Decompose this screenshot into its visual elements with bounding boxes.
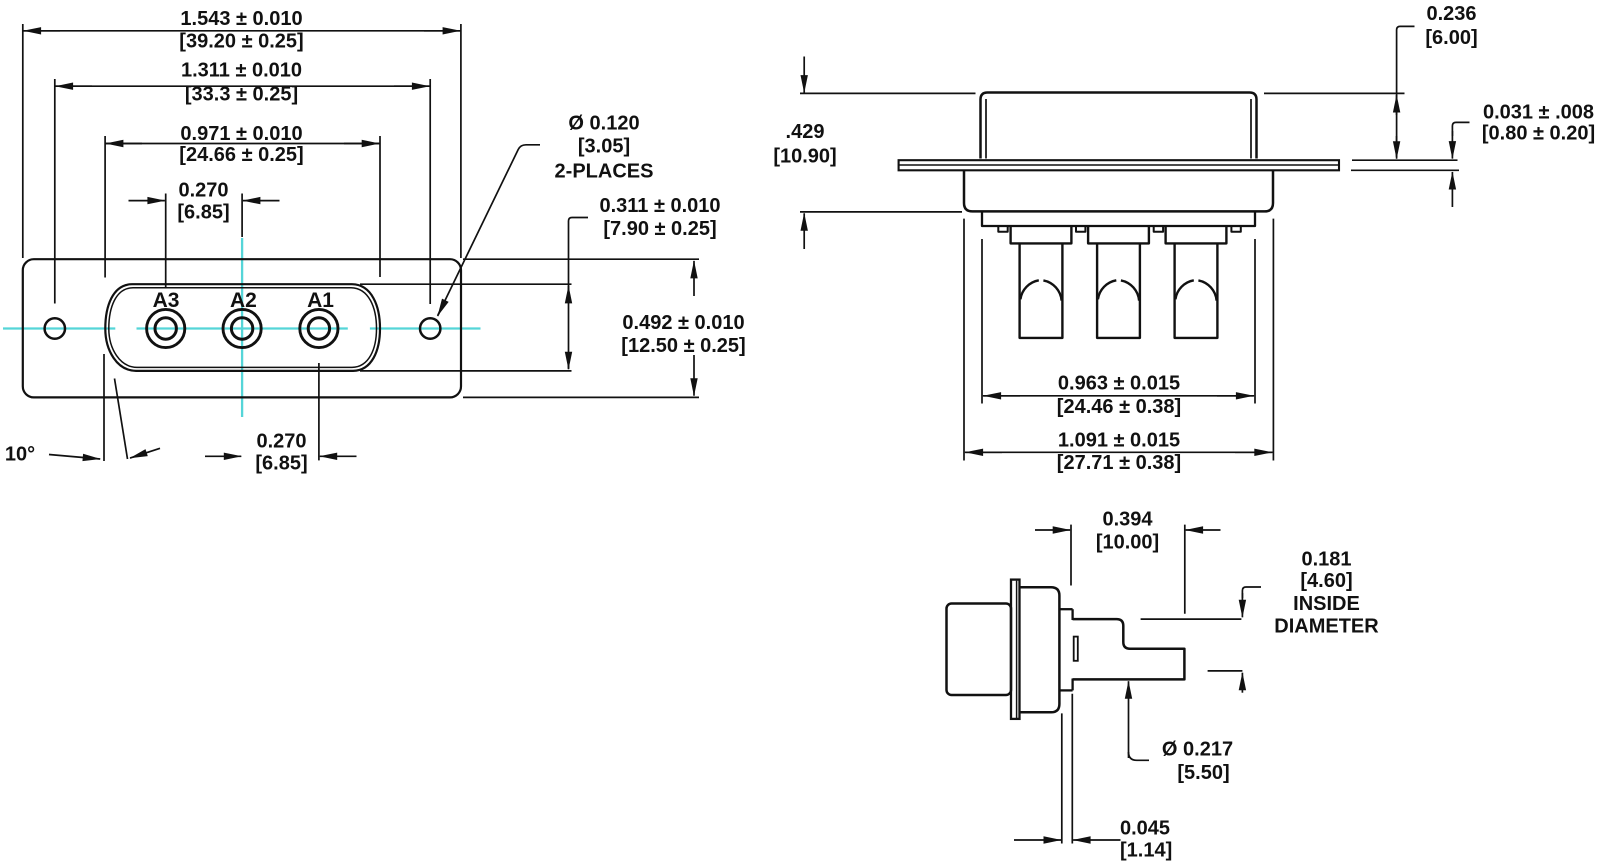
svg-text:0.311 ± 0.010: 0.311 ± 0.010 [599, 195, 720, 217]
svg-text:0.270: 0.270 [178, 179, 228, 201]
svg-text:[7.90 ± 0.25]: [7.90 ± 0.25] [603, 218, 716, 240]
svg-text:[10.90]: [10.90] [773, 145, 836, 167]
svg-text:0.394: 0.394 [1102, 508, 1153, 530]
svg-text:Ø 0.217: Ø 0.217 [1162, 738, 1233, 760]
svg-text:10°: 10° [5, 444, 35, 466]
svg-text:DIAMETER: DIAMETER [1274, 615, 1379, 637]
svg-text:A2: A2 [230, 289, 257, 312]
svg-text:[33.3 ± 0.25]: [33.3 ± 0.25] [185, 84, 298, 106]
svg-text:[5.50]: [5.50] [1177, 762, 1229, 784]
svg-text:0.971 ± 0.010: 0.971 ± 0.010 [180, 123, 302, 145]
svg-text:A1: A1 [307, 289, 334, 312]
svg-text:2-PLACES: 2-PLACES [555, 160, 654, 182]
svg-text:[24.46 ± 0.38]: [24.46 ± 0.38] [1057, 396, 1181, 418]
svg-text:1.311 ± 0.010: 1.311 ± 0.010 [181, 59, 302, 81]
svg-text:[0.80 ± 0.20]: [0.80 ± 0.20] [1482, 123, 1595, 145]
svg-text:[4.60]: [4.60] [1300, 570, 1352, 592]
svg-text:[39.20 ± 0.25]: [39.20 ± 0.25] [179, 30, 303, 52]
svg-text:0.492 ± 0.010: 0.492 ± 0.010 [622, 312, 744, 334]
svg-text:0.181: 0.181 [1301, 549, 1351, 571]
svg-text:0.045: 0.045 [1120, 818, 1170, 840]
svg-text:[6.00]: [6.00] [1425, 27, 1477, 49]
svg-text:[10.00]: [10.00] [1096, 532, 1159, 554]
svg-text:1.091 ± 0.015: 1.091 ± 0.015 [1058, 429, 1180, 451]
svg-text:.429: .429 [786, 121, 825, 143]
svg-text:0.236: 0.236 [1426, 3, 1476, 25]
svg-text:INSIDE: INSIDE [1293, 593, 1360, 615]
svg-text:A3: A3 [153, 289, 180, 312]
svg-text:1.543 ± 0.010: 1.543 ± 0.010 [180, 8, 302, 30]
svg-text:0.270: 0.270 [256, 431, 306, 453]
svg-text:0.031 ± .008: 0.031 ± .008 [1483, 101, 1594, 123]
svg-text:[24.66 ± 0.25]: [24.66 ± 0.25] [179, 144, 303, 166]
svg-text:[27.71 ± 0.38]: [27.71 ± 0.38] [1057, 452, 1181, 474]
svg-text:[12.50 ± 0.25]: [12.50 ± 0.25] [621, 335, 745, 357]
svg-text:0.963 ± 0.015: 0.963 ± 0.015 [1058, 373, 1180, 395]
svg-text:Ø 0.120: Ø 0.120 [568, 112, 639, 134]
svg-text:[6.85]: [6.85] [255, 453, 307, 475]
svg-text:[3.05]: [3.05] [578, 135, 630, 157]
svg-text:[6.85]: [6.85] [177, 202, 229, 224]
svg-text:[1.14]: [1.14] [1120, 839, 1172, 861]
